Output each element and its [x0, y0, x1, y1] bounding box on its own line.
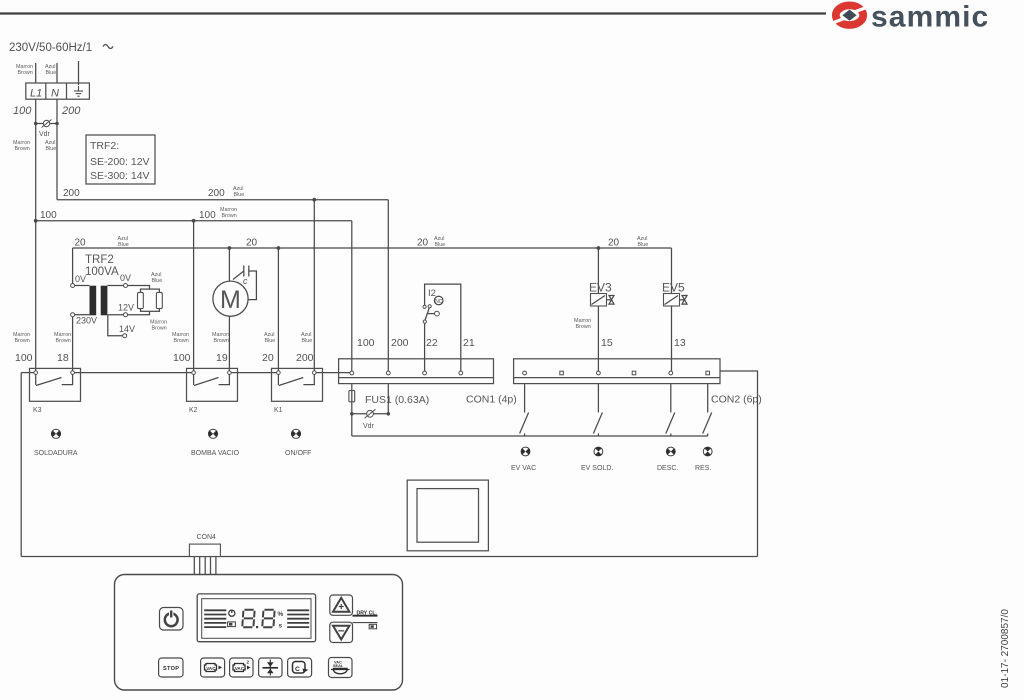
svg-text:K1: K1	[274, 407, 283, 414]
svg-text:Blue: Blue	[265, 338, 276, 344]
display bezel	[197, 594, 315, 642]
control panel outline	[115, 575, 403, 691]
svg-text:Blue: Blue	[152, 278, 163, 284]
wire 200 down to CON1 pin2	[387, 200, 389, 373]
rectifier bridge	[138, 289, 163, 311]
display power icon	[229, 610, 235, 617]
svg-text:Blue: Blue	[46, 70, 57, 76]
svg-text:K3: K3	[33, 407, 42, 414]
secondary 12V tap	[107, 314, 123, 316]
svg-text:SEAL: SEAL	[333, 664, 344, 668]
display inner frame	[202, 599, 311, 639]
svg-text:Brown: Brown	[174, 338, 189, 344]
primary terminal 0V	[71, 284, 75, 288]
svg-text:Blue: Blue	[234, 192, 245, 198]
svg-text:100: 100	[199, 210, 216, 221]
svg-text:%: %	[278, 611, 284, 618]
wire 100 down to CON1 pin1	[351, 221, 353, 373]
svg-text:200: 200	[63, 188, 80, 199]
connector CON2 (6p)	[514, 359, 762, 406]
svg-text:K2: K2	[189, 407, 198, 414]
svg-text:230V/50-60Hz/1: 230V/50-60Hz/1	[9, 42, 92, 54]
net 200 horizontal	[57, 199, 388, 201]
secondary 0V tap	[107, 285, 123, 287]
svg-text:13: 13	[674, 337, 686, 349]
svg-text:Blue: Blue	[302, 338, 313, 344]
switch EV VAC	[520, 384, 529, 436]
right indicator bars	[287, 610, 309, 627]
C-air button	[288, 658, 312, 677]
wire EV3 down	[597, 248, 599, 373]
svg-text:Brown: Brown	[15, 338, 30, 344]
svg-text:DESC.: DESC.	[657, 465, 678, 472]
svg-text:VAC: VAC	[235, 666, 245, 671]
wire 230V down to K3	[72, 317, 74, 373]
connector CON4	[189, 534, 220, 575]
secondary 14V tap	[108, 315, 123, 335]
svg-text:VAC: VAC	[206, 666, 216, 671]
VAC button	[201, 658, 225, 677]
seven segment digit 1	[242, 610, 254, 628]
node 100 at K2 branch	[192, 219, 196, 223]
motor M1	[213, 281, 248, 316]
svg-text:Blue: Blue	[118, 242, 129, 248]
wire motor to K2 right pin	[228, 316, 230, 372]
wire to battery indicator	[353, 622, 378, 624]
svg-text:Brown: Brown	[56, 338, 71, 344]
relay contact K1	[272, 368, 323, 414]
coil EV VAC	[511, 447, 536, 472]
svg-text:100VA: 100VA	[85, 266, 119, 278]
inner square box inner	[417, 489, 479, 543]
node on 200 at K1 branch	[312, 198, 316, 202]
left indicator bars	[204, 610, 226, 627]
svg-text:EV VAC: EV VAC	[511, 465, 536, 472]
svg-text:C: C	[295, 666, 300, 673]
svg-text:200: 200	[208, 188, 225, 199]
transformer primary winding	[75, 285, 90, 287]
battery indicator icon	[369, 624, 376, 629]
svg-text:CON1 (4p): CON1 (4p)	[466, 394, 517, 406]
varistor Vdr at CON1	[350, 384, 390, 430]
wire earth above terminal	[78, 61, 80, 85]
decimal point	[256, 626, 258, 628]
svg-text:M: M	[220, 286, 241, 314]
svg-text:0V: 0V	[75, 274, 86, 284]
top rule	[0, 12, 826, 14]
solenoid EV3	[589, 281, 614, 307]
wire L1 above terminal	[35, 63, 37, 83]
switch RES	[703, 384, 712, 436]
svg-text:SE-200: 12V: SE-200: 12V	[90, 156, 150, 168]
node 20/K1 branch	[277, 246, 281, 250]
svg-text:100: 100	[40, 210, 57, 221]
coil K3 SOLDADURA	[34, 429, 78, 457]
svg-text:SOLDADURA: SOLDADURA	[34, 450, 78, 457]
wire EV5 down	[671, 248, 673, 373]
svg-text:18: 18	[57, 352, 69, 364]
bus line to CON2 switches	[352, 435, 708, 437]
svg-text:20: 20	[608, 238, 620, 249]
DRY CL underline	[353, 615, 378, 617]
svg-text:20: 20	[75, 238, 87, 249]
svg-text:Blue: Blue	[435, 242, 446, 248]
solenoid EV5	[662, 281, 687, 307]
sammic logo	[830, 1, 989, 34]
svg-text:200: 200	[61, 105, 81, 117]
down button	[330, 622, 353, 642]
svg-text:21: 21	[463, 337, 475, 349]
seven segment digit 2	[262, 610, 274, 628]
switch EV SOLD	[593, 384, 602, 436]
svg-text:Brown: Brown	[15, 146, 30, 152]
enclosure left edge	[20, 373, 22, 557]
svg-text:200: 200	[391, 337, 409, 349]
svg-text:I2: I2	[428, 288, 436, 299]
svg-text:STOP: STOP	[163, 666, 179, 672]
coil K1 ON/OFF	[285, 429, 311, 457]
svg-text:100: 100	[15, 352, 33, 364]
wire 100 down to K2 left pin	[193, 221, 195, 373]
coil RES	[695, 447, 712, 472]
svg-text:ON/OFF: ON/OFF	[285, 450, 311, 457]
svg-text:EV5: EV5	[662, 281, 685, 295]
wire L1 down	[35, 99, 37, 372]
svg-text:22: 22	[426, 337, 438, 349]
wire N down to 200 corner	[56, 99, 58, 200]
svg-text:RES.: RES.	[695, 465, 711, 472]
svg-text:12V: 12V	[118, 303, 134, 313]
svg-text:L1: L1	[30, 88, 42, 100]
node 20/EV3	[597, 246, 601, 250]
node 20/motor	[228, 246, 232, 250]
wire N above terminal	[56, 63, 58, 83]
relay contact K3	[30, 368, 81, 414]
svg-text:CON2 (6p): CON2 (6p)	[711, 394, 762, 406]
svg-text:Brown: Brown	[222, 213, 237, 219]
svg-text:c: c	[243, 276, 248, 286]
svg-text:19: 19	[216, 352, 228, 364]
inner square box outer	[407, 480, 488, 551]
seal button	[259, 658, 282, 677]
varistor Vdr across mains	[34, 120, 59, 139]
svg-text:20: 20	[417, 238, 429, 249]
sine symbol	[103, 45, 113, 49]
svg-text:230V: 230V	[76, 316, 97, 326]
svg-text:20: 20	[262, 352, 274, 364]
connector CON1 (4p)	[339, 359, 517, 406]
svg-text:EV3: EV3	[589, 281, 612, 295]
net 100 horizontal	[36, 220, 352, 222]
svg-text:Brown: Brown	[214, 338, 229, 344]
svg-text:BOMBA VACIO: BOMBA VACIO	[191, 450, 240, 457]
svg-text:2: 2	[247, 660, 250, 665]
svg-text:Vdr: Vdr	[39, 131, 51, 138]
svg-text:100: 100	[13, 105, 32, 117]
row wire K3 to K2	[73, 372, 194, 374]
svg-text:NC: NC	[435, 299, 443, 305]
svg-text:20: 20	[246, 238, 258, 249]
svg-text:15: 15	[601, 337, 613, 349]
transformer secondary winding	[101, 286, 108, 316]
wire 200 down to K1 right pin	[313, 200, 315, 373]
wire 20 down to primary 0V	[72, 248, 74, 286]
svg-text:Brown: Brown	[152, 326, 167, 332]
coil K2 BOMBA VACIO	[191, 429, 240, 457]
svg-text:14V: 14V	[119, 324, 135, 334]
svg-text:100: 100	[357, 337, 375, 349]
svg-text:sammic: sammic	[871, 1, 989, 34]
svg-text:Brown: Brown	[576, 324, 591, 330]
power button	[160, 608, 184, 631]
up button	[330, 595, 353, 615]
enclosure bottom edge	[21, 556, 757, 558]
svg-text:0V: 0V	[120, 273, 131, 283]
svg-text:FUS1 (0.63A): FUS1 (0.63A)	[365, 394, 429, 406]
earth symbol	[74, 86, 83, 96]
node 100 left	[34, 219, 38, 223]
svg-text:CON4: CON4	[197, 534, 217, 541]
STOP button	[159, 658, 183, 677]
VAC2 button	[230, 658, 253, 677]
CON2 right exit wire	[720, 371, 758, 557]
TRF2 note box	[86, 135, 155, 184]
switch DESC	[666, 384, 675, 436]
svg-text:EV SOLD.: EV SOLD.	[581, 465, 613, 472]
wire 20 down to K1 left pin	[277, 248, 279, 373]
capacitor C	[233, 266, 256, 300]
relay contact K2	[187, 368, 238, 414]
svg-text:s: s	[279, 623, 283, 630]
svg-text:100: 100	[173, 352, 191, 364]
wire 20 down to motor	[228, 248, 230, 281]
svg-text:Blue: Blue	[638, 242, 649, 248]
wire 0V to bridge	[128, 286, 150, 290]
svg-text:200: 200	[296, 352, 314, 364]
fuse FUS1	[349, 384, 429, 414]
svg-text:N: N	[51, 88, 59, 100]
row wire K1 to CON1	[314, 372, 352, 374]
svg-text:TRF2: TRF2	[85, 254, 114, 266]
svg-text:SE-300: 14V: SE-300: 14V	[90, 170, 150, 182]
svg-text:Vdr: Vdr	[363, 423, 375, 430]
coil DESC	[657, 447, 678, 472]
microswitch I2 assembly	[423, 284, 461, 373]
svg-text:Blue: Blue	[46, 146, 57, 152]
terminal block L1 N PE	[26, 83, 90, 99]
coil EV SOLD	[581, 447, 613, 472]
svg-text:TRF2:: TRF2:	[90, 140, 119, 152]
row wire left edge to K3	[21, 372, 36, 374]
wire FUS1 down to bus	[351, 414, 353, 436]
svg-text:01-17- 2700857/0: 01-17- 2700857/0	[1000, 609, 1011, 688]
svg-text:Brown: Brown	[18, 70, 33, 76]
VAC SEAL button	[329, 658, 353, 678]
row wire K2 to K1	[229, 372, 278, 374]
primary terminal 230V	[71, 313, 75, 317]
display battery icon	[228, 622, 236, 627]
net 20 horizontal	[73, 247, 672, 249]
wire 12V to bridge	[128, 311, 150, 314]
